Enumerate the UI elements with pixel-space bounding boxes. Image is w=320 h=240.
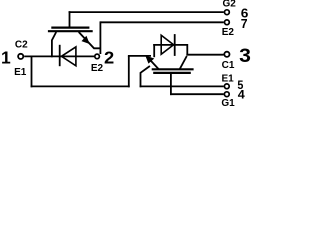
igbt Q2 channel bar — [48, 30, 93, 32]
wire to Q1 emitter arrow — [128, 55, 151, 57]
svg-text:C1: C1 — [222, 60, 235, 71]
igbt Q2 collector lead — [52, 32, 56, 57]
wire Q1 gate lead down — [170, 73, 172, 95]
svg-text:7: 7 — [241, 17, 248, 31]
pin 7 circle — [225, 20, 230, 25]
pin 4 circle — [224, 92, 229, 97]
svg-text:3: 3 — [239, 46, 251, 67]
pin 6 circle — [225, 10, 230, 15]
igbt Q2 emitter lead — [79, 32, 101, 48]
terminal 1 circle — [18, 54, 23, 59]
svg-text:E2: E2 — [222, 27, 235, 38]
wire bottom rail left — [31, 85, 130, 87]
igbt Q2 emitter arrow — [82, 37, 89, 44]
wire E2 rail — [100, 21, 223, 23]
wire G1 rail to pin 4 — [170, 93, 224, 95]
svg-text:2: 2 — [104, 47, 114, 67]
svg-text:C2: C2 — [15, 40, 28, 51]
diode D1 cathode bar — [174, 34, 176, 56]
wire to terminal 3 — [186, 54, 223, 56]
svg-text:E1: E1 — [14, 67, 27, 78]
wire E2 vertical to terminal 2 — [99, 21, 101, 54]
igbt Q1 emitter lead — [147, 57, 159, 69]
wire D1 cathode corner down — [186, 44, 188, 56]
diode D1 wire — [153, 44, 187, 46]
igbt Q1 channel bar — [152, 68, 194, 70]
pin 5 circle — [224, 84, 229, 89]
wire midpoint branch down from terminal 1 wire — [31, 56, 33, 87]
svg-text:E1: E1 — [222, 73, 235, 84]
svg-text:1: 1 — [1, 48, 11, 68]
diode D1 anode vertical — [153, 44, 155, 57]
wire G2 rail — [69, 11, 224, 13]
wire E1 kelvin tap diagonal — [141, 66, 150, 87]
diode D2 cathode bar — [59, 45, 61, 66]
svg-text:G1: G1 — [221, 98, 235, 109]
svg-text:G2: G2 — [223, 0, 237, 10]
terminal 3 circle — [224, 52, 229, 57]
igbt Q1 gate bar — [153, 72, 191, 74]
wire E1 rail to pin 5 — [140, 85, 224, 87]
terminal 2 circle — [95, 54, 100, 59]
wire vertical up to Q1 emitter — [128, 56, 130, 87]
svg-text:E2: E2 — [91, 63, 104, 74]
svg-text:4: 4 — [238, 90, 246, 102]
igbt Q1 collector lead — [180, 56, 187, 69]
wire terminal1 to diode D2 and terminal 2 — [24, 55, 94, 57]
diode D2 triangle — [61, 47, 76, 66]
igbt Q1 emitter arrow — [146, 56, 154, 63]
igbt Q2 gate bar — [51, 27, 89, 29]
wire Q2 gate lead — [69, 11, 71, 27]
diode D1 triangle — [161, 35, 173, 54]
